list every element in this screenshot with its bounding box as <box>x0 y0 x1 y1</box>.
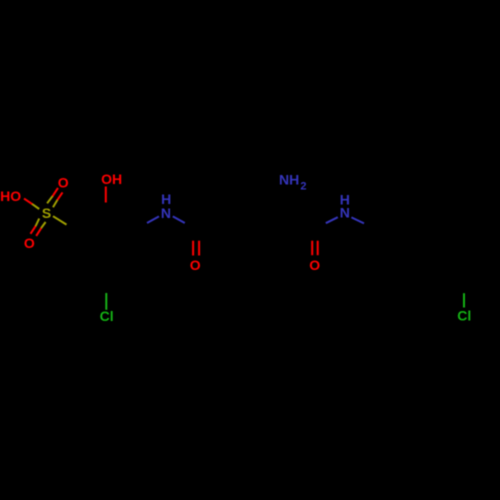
S=O bottom double bond line B <box>36 222 45 236</box>
svg-text:O: O <box>190 257 201 273</box>
C7=O double bond (red) <box>193 241 199 256</box>
bond N-C3 stub left amide to ring (blue) <box>147 216 159 223</box>
S=O bottom double bond line A <box>31 219 40 234</box>
bond N-C9 stub right amide to carbonyl (blue) <box>326 217 338 223</box>
svg-text:OH: OH <box>101 171 122 187</box>
svg-text:NH: NH <box>279 172 299 188</box>
svg-text:O: O <box>24 235 35 251</box>
bond S-OH (red half) <box>24 199 32 205</box>
S=O top double bond line A <box>47 188 58 203</box>
svg-text:O: O <box>58 175 69 191</box>
bond N-C10 stub right amide to chain (blue) <box>351 217 364 223</box>
bond C-Cl stub left (green) <box>105 293 107 310</box>
svg-text:S: S <box>42 205 51 221</box>
S=O top double bond line B <box>53 192 63 207</box>
bond C-Cl stub right (green) <box>463 293 465 307</box>
bond S-C1 stub (olive half) <box>53 216 67 224</box>
svg-text:N: N <box>161 205 171 221</box>
svg-text:N: N <box>340 205 350 221</box>
bond O-C2 stub (phenol, red half) <box>105 187 107 203</box>
C9=O double bond (red) <box>312 241 318 256</box>
svg-text:Cl: Cl <box>100 308 114 324</box>
bond S-OH (olive half) <box>32 204 39 209</box>
svg-text:O: O <box>309 257 320 273</box>
bond N-C7 stub left amide to carbonyl (blue) <box>173 216 185 223</box>
svg-text:HO: HO <box>0 188 21 204</box>
svg-text:Cl: Cl <box>457 308 471 324</box>
svg-text:2: 2 <box>300 180 306 192</box>
